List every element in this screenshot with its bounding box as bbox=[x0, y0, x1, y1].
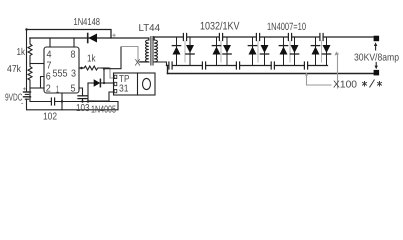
resistor 1k (horizontal, base drive) bbox=[84, 66, 101, 70]
diodes 1N4007 down (cathode bottom) bbox=[186, 45, 331, 53]
svg-text:+: + bbox=[23, 86, 27, 93]
wire: fork down to HV return rail bbox=[167, 66, 169, 74]
svg-text:4: 4 bbox=[47, 50, 52, 61]
capacitor ticks bottom rail bbox=[169, 62, 308, 69]
svg-text:LT44: LT44 bbox=[139, 23, 161, 34]
svg-text:1N4007=10: 1N4007=10 bbox=[267, 21, 306, 33]
diode 1N4005 (clamp) bbox=[88, 82, 94, 84]
svg-text:X100: X100 bbox=[333, 80, 357, 91]
wire: pin5 down to 103 cap bbox=[79, 88, 83, 96]
wire: X to primary bottom bbox=[141, 61, 146, 63]
svg-text:555: 555 bbox=[53, 69, 68, 80]
bottom cap rail with series caps bbox=[167, 65, 328, 67]
svg-text:31: 31 bbox=[119, 84, 129, 95]
output arrow down bbox=[375, 63, 377, 67]
wire: left 9V+ rail bbox=[26, 30, 28, 92]
ladder verticals bbox=[177, 37, 327, 66]
resistor 47k (vertical) bbox=[28, 64, 32, 89]
wire: top horizontal from rail to transformer plus bbox=[27, 30, 112, 39]
wire: pins 2/6 net down to 102 cap line bbox=[29, 88, 31, 102]
wire: battery minus down and bottom return line bbox=[27, 99, 119, 110]
wire: collector Z-wire to transformer X bbox=[104, 47, 121, 84]
svg-text:1N4148: 1N4148 bbox=[74, 17, 101, 28]
svg-text:9VDC: 9VDC bbox=[5, 93, 23, 104]
HV return rail bbox=[168, 73, 375, 75]
svg-text:1032/1KV: 1032/1KV bbox=[200, 21, 240, 33]
diode 1N4148 (cathode left) bbox=[88, 34, 97, 43]
svg-text:47k: 47k bbox=[7, 64, 22, 75]
HV top rail with series caps bbox=[154, 36, 373, 38]
svg-text:X: X bbox=[135, 58, 141, 68]
svg-text:2: 2 bbox=[46, 84, 51, 95]
diodes 1N4007 up (cathode top) bbox=[173, 47, 320, 55]
svg-text:1k: 1k bbox=[87, 54, 96, 65]
svg-text:30KV/8amp: 30KV/8amp bbox=[354, 53, 399, 64]
transformer secondary winding bbox=[154, 40, 157, 62]
transformer LT44 primary winding bbox=[148, 38, 150, 40]
resistor 1k (left, vertical) bbox=[28, 38, 32, 64]
svg-text:1: 1 bbox=[56, 85, 59, 96]
wire: 555 pin4 to VCC bbox=[49, 38, 51, 47]
wire: gray wire to primary bottom X bbox=[121, 47, 138, 59]
svg-text:3: 3 bbox=[71, 69, 76, 80]
IC 555 box bbox=[44, 47, 79, 93]
wire: secondary top to HV top rail bbox=[153, 37, 155, 40]
transistor TIP31 package bbox=[114, 73, 156, 95]
wire: pin7 to resistor junction bbox=[30, 63, 44, 65]
gray verticals under top caps bbox=[185, 41, 322, 62]
wire: VCC line y38 from 1k top to primary top bbox=[30, 37, 149, 39]
svg-text:102: 102 bbox=[43, 112, 57, 123]
wire: pin3 out bbox=[79, 67, 84, 69]
wire: diode anode to ground bbox=[87, 83, 89, 102]
svg-text:6: 6 bbox=[46, 72, 51, 83]
node: corner dot top-left bbox=[25, 28, 27, 30]
wire: secondary bottom fork bbox=[154, 62, 166, 66]
svg-text:1k: 1k bbox=[17, 47, 26, 58]
wire: pin6 bracket to pin2 net bbox=[41, 77, 45, 89]
wire: TIP31 emitter to ground bbox=[95, 92, 114, 101]
terminal square minus bbox=[374, 70, 380, 76]
wire: 47k bottom to pin2 bbox=[30, 87, 44, 89]
capacitor ticks top rail bbox=[183, 34, 323, 41]
terminal square plus bbox=[374, 36, 380, 42]
output arrow up bbox=[375, 45, 377, 50]
leader X100 arrows (gray) bbox=[305, 52, 339, 89]
svg-text:5: 5 bbox=[71, 84, 76, 95]
transformer core bbox=[150, 37, 152, 66]
label output polarity marks bbox=[362, 80, 382, 88]
wire: ground line y101.5 with 102 cap in series bbox=[30, 101, 51, 103]
capacitor 102 (series ticks) bbox=[50, 98, 52, 105]
battery 9VDC bbox=[24, 91, 31, 93]
wire: 555 pin8 to VCC bbox=[73, 38, 75, 47]
wire: pin1 to ground bbox=[61, 93, 63, 110]
svg-text:1N4005: 1N4005 bbox=[91, 105, 116, 116]
svg-text:+: + bbox=[112, 33, 116, 40]
svg-text:8: 8 bbox=[71, 50, 76, 61]
wire: 1k to TIP31 top pin bbox=[101, 67, 110, 69]
svg-text:7: 7 bbox=[47, 61, 52, 72]
capacitor 103 bbox=[78, 95, 87, 97]
svg-text:103: 103 bbox=[76, 103, 90, 114]
